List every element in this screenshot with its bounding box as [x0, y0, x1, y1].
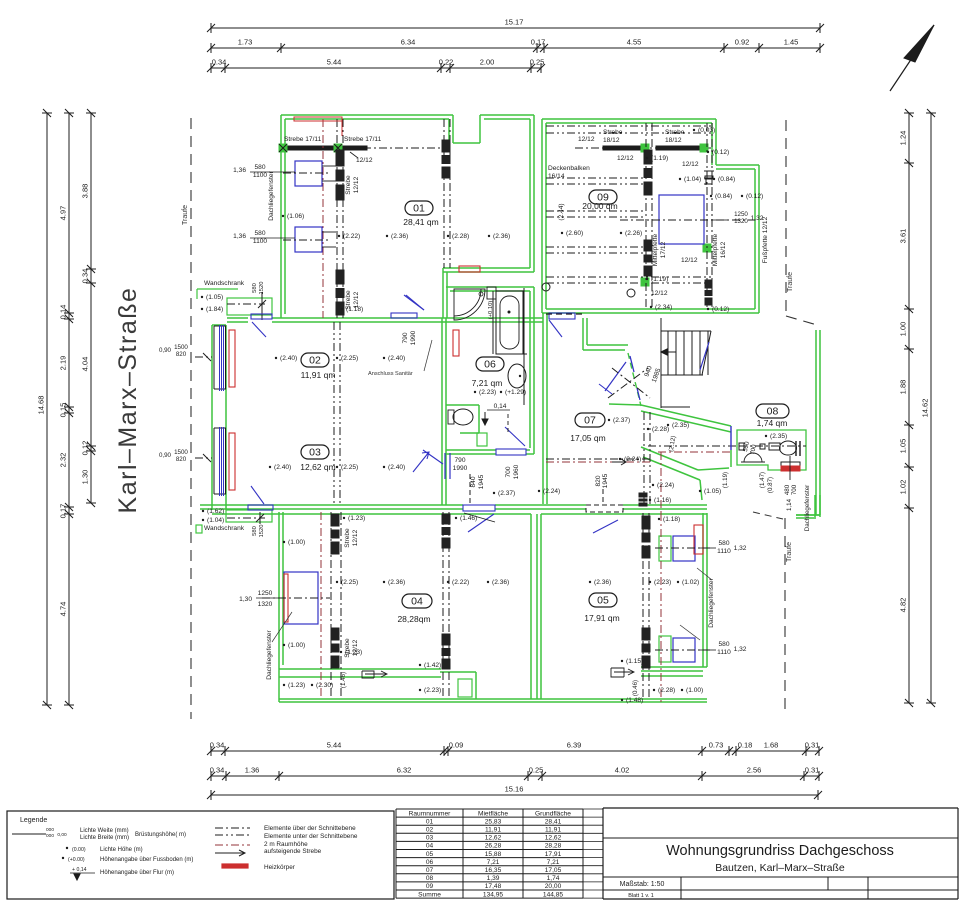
svg-text:7,21: 7,21 — [487, 859, 500, 866]
svg-text:0.14: 0.14 — [59, 305, 68, 320]
bath lower niche walls — [446, 404, 479, 406]
svg-text:Elemente unter der Schnitteben: Elemente unter der Schnittebene — [264, 833, 358, 840]
svg-text:Dachliegefenster: Dachliegefenster — [268, 170, 275, 220]
svg-text:1320: 1320 — [258, 601, 273, 608]
right outer wall below room 09 — [815, 330, 817, 515]
svg-text:2 m Raumhöhe: 2 m Raumhöhe — [264, 841, 308, 848]
dimension chain bottom row 1 — [211, 750, 819, 752]
svg-text:(1.84): (1.84) — [206, 306, 223, 313]
wc — [448, 410, 454, 424]
svg-text:(2.23): (2.23) — [479, 389, 496, 396]
svg-text:(0.03): (0.03) — [698, 127, 715, 134]
svg-text:1,36: 1,36 — [233, 233, 246, 240]
strebe green squares room 01 — [279, 144, 287, 152]
svg-text:(1.06): (1.06) — [287, 213, 304, 220]
svg-text:580: 580 — [252, 526, 258, 536]
door room 07 from top — [549, 313, 575, 319]
svg-text:134,95: 134,95 — [483, 891, 504, 898]
svg-text:05: 05 — [597, 595, 609, 607]
svg-text:16/12: 16/12 — [720, 241, 727, 258]
svg-text:12/12: 12/12 — [651, 290, 668, 297]
svg-text:1110: 1110 — [717, 649, 731, 656]
svg-text:04: 04 — [426, 843, 434, 850]
legend box — [7, 811, 394, 899]
dimension chain left inner — [90, 113, 92, 503]
svg-text:(2.23): (2.23) — [424, 687, 441, 694]
svg-text:2.19: 2.19 — [59, 356, 68, 371]
svg-text:06: 06 — [484, 359, 496, 371]
svg-text:Fußpfette 12/12: Fußpfette 12/12 — [762, 216, 769, 263]
svg-text:0,90: 0,90 — [159, 347, 172, 354]
svg-text:(2.28): (2.28) — [452, 233, 469, 240]
svg-text:17,05 qm: 17,05 qm — [570, 433, 605, 443]
corridor middle dash-dot line with strebe arrow — [546, 458, 652, 460]
svg-text:Traufe: Traufe — [787, 272, 794, 292]
room 08 label — [756, 404, 789, 418]
svg-text:1945: 1945 — [602, 473, 609, 488]
bath door leaf — [505, 427, 525, 446]
svg-text:(2.22): (2.22) — [343, 233, 360, 240]
svg-text:1520: 1520 — [259, 282, 265, 295]
title block — [602, 808, 604, 899]
svg-text:0.25: 0.25 — [529, 766, 544, 775]
svg-text:0.22: 0.22 — [439, 58, 454, 67]
svg-text:0.17: 0.17 — [59, 504, 68, 519]
svg-text:Strebe 17/11: Strebe 17/11 — [284, 136, 322, 143]
svg-text:(1.19): (1.19) — [722, 472, 729, 488]
column hatch room 01 — [336, 150, 344, 166]
svg-text:(1.19): (1.19) — [651, 155, 668, 162]
wash basin — [508, 364, 526, 388]
svg-text:5.44: 5.44 — [327, 58, 342, 67]
door swing room 07 blue — [605, 362, 626, 391]
svg-text:1,74 qm: 1,74 qm — [757, 418, 788, 428]
svg-text:144,85: 144,85 — [543, 891, 564, 898]
svg-text:(2.23): (2.23) — [654, 579, 671, 586]
svg-text:17,91 qm: 17,91 qm — [584, 613, 619, 623]
room 09 column lines — [645, 123, 647, 309]
svg-text:2.00: 2.00 — [480, 58, 495, 67]
door near wandschrank top — [251, 314, 272, 319]
svg-text:17,48: 17,48 — [485, 883, 502, 890]
svg-text:Strebe 17/11: Strebe 17/11 — [344, 136, 382, 143]
svg-text:05: 05 — [426, 851, 434, 858]
bath partition walls — [492, 291, 494, 354]
svg-text:15.16: 15.16 — [505, 785, 524, 794]
column dash-dot lines room 01 — [336, 119, 338, 318]
svg-text:820: 820 — [595, 475, 602, 486]
room 07 label — [575, 413, 605, 427]
columns room 05 right — [642, 513, 644, 699]
door top right of corridor — [391, 313, 417, 318]
svg-text:(+0.10): (+0.10) — [488, 301, 494, 320]
strebe beam line room 01 — [283, 147, 446, 149]
svg-text:(1.05): (1.05) — [206, 294, 223, 301]
svg-text:1960: 1960 — [513, 464, 520, 479]
svg-text:Lichte Weite (mm): Lichte Weite (mm) — [80, 828, 129, 834]
svg-text:Strebe: Strebe — [345, 290, 352, 310]
svg-text:(1.46): (1.46) — [340, 672, 347, 688]
door room 02 top — [252, 322, 266, 337]
svg-text:3.88: 3.88 — [81, 184, 90, 199]
svg-text:(0.12): (0.12) — [746, 193, 763, 200]
room table — [396, 808, 583, 810]
svg-text:3.61: 3.61 — [899, 229, 908, 244]
svg-text:840: 840 — [470, 476, 477, 487]
dimension chain bottom row 2 — [211, 775, 819, 777]
svg-text:(+0.00): (+0.00) — [68, 857, 85, 863]
room 07 upper-left walls — [582, 318, 584, 350]
svg-text:1100: 1100 — [253, 238, 268, 245]
room 03 label — [301, 445, 329, 459]
svg-text:0.09: 0.09 — [449, 741, 464, 750]
svg-text:0.34: 0.34 — [210, 741, 225, 750]
Traufe right upper — [785, 120, 787, 316]
svg-text:4.82: 4.82 — [899, 598, 908, 613]
svg-text:4.74: 4.74 — [59, 602, 68, 617]
svg-text:580: 580 — [718, 540, 729, 547]
shower quarter circle — [454, 289, 485, 320]
svg-text:0,14: 0,14 — [494, 403, 507, 410]
svg-text:820: 820 — [176, 351, 187, 358]
dashed roof edge bottom right — [753, 512, 783, 519]
svg-text:0,90: 0,90 — [159, 452, 172, 459]
svg-text:(1.04): (1.04) — [207, 517, 224, 524]
svg-text:Blatt 1 v. 1: Blatt 1 v. 1 — [628, 893, 654, 899]
bath room 06 left wall — [441, 318, 443, 505]
svg-text:Strebe: Strebe — [665, 129, 685, 136]
svg-text:(2.40): (2.40) — [280, 355, 297, 362]
svg-text:15,88: 15,88 — [485, 851, 502, 858]
svg-text:Strebe: Strebe — [344, 638, 351, 658]
svg-text:0.15: 0.15 — [59, 403, 68, 418]
svg-text:Höhenangabe über Flur (m): Höhenangabe über Flur (m) — [100, 870, 174, 876]
svg-text:1520: 1520 — [259, 525, 265, 538]
dark red roofline room 04 — [320, 512, 322, 699]
dachliegefenster room 01 upper — [295, 161, 322, 186]
svg-text:580: 580 — [254, 164, 265, 171]
room 08 fixtures — [739, 445, 806, 447]
svg-text:1.73: 1.73 — [238, 38, 253, 47]
svg-text:Bautzen, Karl–Marx–Straße: Bautzen, Karl–Marx–Straße — [715, 862, 845, 874]
svg-text:Strebe: Strebe — [603, 129, 623, 136]
svg-text:0.17: 0.17 — [531, 38, 546, 47]
svg-text:790: 790 — [402, 332, 409, 343]
svg-text:12/12: 12/12 — [352, 639, 359, 656]
svg-text:Karl–Marx–Straße: Karl–Marx–Straße — [114, 287, 142, 514]
wedge dash-dot lines — [643, 412, 645, 504]
svg-text:Grundfläche: Grundfläche — [535, 810, 571, 817]
room 05 right outer wall — [702, 513, 704, 667]
svg-text:(2.36): (2.36) — [391, 233, 408, 240]
svg-text:(2.36): (2.36) — [492, 579, 509, 586]
svg-text:0.34: 0.34 — [81, 269, 90, 284]
windows room 05 bay — [673, 536, 695, 561]
svg-text:(2.37): (2.37) — [498, 490, 515, 497]
stair blue rail — [700, 342, 709, 370]
svg-text:17/12: 17/12 — [660, 241, 667, 258]
svg-text:12/12: 12/12 — [617, 155, 634, 162]
window room 09 blue — [659, 195, 704, 244]
svg-text:2.32: 2.32 — [59, 453, 68, 468]
svg-text:(2.34): (2.34) — [655, 304, 672, 311]
svg-text:(1.42): (1.42) — [424, 662, 441, 669]
svg-text:1,32: 1,32 — [734, 545, 747, 552]
svg-text:700: 700 — [791, 484, 798, 495]
svg-text:(2.25): (2.25) — [341, 464, 358, 471]
svg-text:1,14: 1,14 — [786, 498, 793, 511]
staircase — [667, 331, 669, 375]
svg-text:1,39: 1,39 — [487, 875, 500, 882]
svg-text:Strebe: Strebe — [344, 528, 351, 548]
svg-text:(1.62): (1.62) — [207, 508, 224, 515]
north arrow — [890, 25, 934, 91]
corridor door to room 04 — [463, 505, 495, 511]
svg-text:20,00: 20,00 — [545, 883, 562, 890]
svg-text:12,62: 12,62 — [545, 835, 562, 842]
wandschrank top left box — [227, 298, 272, 315]
svg-text:6.39: 6.39 — [567, 741, 582, 750]
svg-text:12,62 qm: 12,62 qm — [300, 462, 335, 472]
svg-text:0.31: 0.31 — [805, 766, 820, 775]
svg-text:06: 06 — [426, 859, 434, 866]
svg-text:(2.24): (2.24) — [624, 456, 641, 463]
svg-text:1320: 1320 — [734, 218, 748, 225]
svg-text:02: 02 — [309, 355, 321, 367]
svg-text:0.92: 0.92 — [735, 38, 750, 47]
svg-text:1.36: 1.36 — [245, 766, 260, 775]
room 09 label — [589, 190, 617, 204]
svg-text:11,91: 11,91 — [545, 827, 561, 834]
svg-text:+ 0,14: + 0,14 — [72, 867, 87, 873]
strebe arrows diagonal blue marks rooms — [413, 452, 429, 472]
svg-text:1500: 1500 — [174, 449, 188, 456]
svg-text:2.56: 2.56 — [747, 766, 762, 775]
svg-text:Mittelpfette: Mittelpfette — [652, 234, 659, 267]
height arrow 0,14 — [482, 412, 488, 425]
wc column and height note — [487, 287, 496, 299]
svg-text:7,21: 7,21 — [547, 859, 560, 866]
svg-text:4.04: 4.04 — [81, 357, 90, 372]
door room 05 right lower — [611, 668, 634, 677]
svg-text:17,05: 17,05 — [545, 867, 562, 874]
svg-text:(1.46): (1.46) — [460, 515, 477, 522]
svg-text:03: 03 — [426, 835, 434, 842]
svg-text:5.44: 5.44 — [327, 741, 342, 750]
svg-text:4.02: 4.02 — [615, 766, 630, 775]
svg-text:Höhenangabe über Fussboden (m): Höhenangabe über Fussboden (m) — [100, 857, 193, 863]
svg-text:Dachliegefenster: Dachliegefenster — [708, 577, 715, 627]
svg-text:(2.24): (2.24) — [657, 482, 674, 489]
room 09 outer walls — [542, 118, 716, 120]
table spacer column — [583, 808, 603, 810]
svg-text:1945: 1945 — [478, 474, 485, 489]
dashed glass diagonal at stair — [628, 353, 641, 406]
svg-text:Brüstungshöhe( m): Brüstungshöhe( m) — [135, 832, 186, 838]
room 09 strebe bars — [603, 146, 645, 150]
Traufe right lower — [784, 518, 786, 709]
bath top walls — [446, 286, 534, 288]
svg-text:Dachliegefenster: Dachliegefenster — [804, 485, 811, 531]
blue door hall left — [444, 453, 446, 479]
svg-text:08: 08 — [767, 406, 779, 418]
svg-text:(1.19): (1.19) — [651, 276, 668, 283]
svg-text:11,91 qm: 11,91 qm — [301, 370, 336, 380]
svg-text:26,28: 26,28 — [485, 843, 502, 850]
svg-text:12/12: 12/12 — [578, 136, 595, 143]
svg-text:28,28: 28,28 — [545, 843, 562, 850]
svg-text:04: 04 — [411, 596, 423, 608]
svg-text:(2.35): (2.35) — [770, 433, 787, 440]
svg-text:820: 820 — [176, 456, 187, 463]
bottom outer wall — [279, 698, 707, 700]
svg-text:28,41: 28,41 — [545, 818, 562, 825]
svg-text:Elemente über der Schnittebene: Elemente über der Schnittebene — [264, 825, 356, 832]
svg-text:(1.18): (1.18) — [663, 516, 680, 523]
svg-text:(0.12): (0.12) — [712, 149, 729, 156]
red line top wall — [294, 117, 342, 121]
radiator room 01 — [459, 266, 480, 272]
svg-text:1990: 1990 — [453, 465, 468, 472]
bath right wall — [529, 291, 531, 448]
Traufe dashed line left — [190, 118, 192, 719]
red radiators rooms 02-03 — [229, 330, 235, 387]
svg-text:Traufe: Traufe — [182, 205, 189, 225]
svg-text:1990: 1990 — [410, 330, 417, 345]
svg-text:18/12: 18/12 — [603, 137, 620, 144]
svg-text:11,91: 11,91 — [485, 827, 501, 834]
svg-text:(1.00): (1.00) — [288, 642, 305, 649]
room 04 bottom notch — [440, 671, 476, 673]
room 01 label — [405, 201, 433, 215]
svg-text:(2.24): (2.24) — [543, 488, 560, 495]
svg-text:(0.00): (0.00) — [72, 847, 86, 853]
svg-text:07: 07 — [584, 415, 596, 427]
svg-text:(0.46): (0.46) — [632, 680, 639, 696]
svg-text:(2.60): (2.60) — [566, 230, 583, 237]
svg-text:(1.00): (1.00) — [686, 687, 703, 694]
svg-text:16,35: 16,35 — [485, 867, 502, 874]
window dim tick marks left — [203, 353, 211, 361]
svg-text:580: 580 — [718, 641, 729, 648]
svg-text:28,28qm: 28,28qm — [397, 614, 430, 624]
svg-text:4.97: 4.97 — [59, 206, 68, 221]
svg-text:(1.16): (1.16) — [654, 497, 671, 504]
svg-text:Lichte Höhe (m): Lichte Höhe (m) — [100, 847, 143, 853]
svg-text:02: 02 — [426, 827, 434, 834]
svg-text:0.34: 0.34 — [210, 766, 225, 775]
svg-text:4.55: 4.55 — [627, 38, 642, 47]
room 09 column hatches — [644, 150, 652, 164]
room 01 walls — [280, 115, 282, 318]
svg-text:580: 580 — [252, 283, 258, 293]
svg-text:1.05: 1.05 — [899, 439, 908, 454]
svg-text:0.34: 0.34 — [212, 58, 227, 67]
svg-text:(2.28): (2.28) — [652, 426, 669, 433]
beam line rooms 02-03 — [333, 322, 335, 505]
room 08 walls — [737, 430, 806, 470]
svg-text:1100: 1100 — [253, 172, 268, 179]
svg-text:1,30: 1,30 — [239, 596, 252, 603]
svg-text:(0.84): (0.84) — [715, 193, 732, 200]
svg-text:01: 01 — [413, 203, 425, 215]
svg-text:6.32: 6.32 — [397, 766, 412, 775]
dimension chain right inner — [908, 113, 910, 703]
svg-text:Lichte Breite (mm): Lichte Breite (mm) — [80, 835, 129, 841]
svg-text:0.31: 0.31 — [805, 741, 820, 750]
svg-text:Anschluss Sanitär: Anschluss Sanitär — [368, 371, 413, 377]
svg-text:14.62: 14.62 — [921, 399, 930, 418]
svg-text:08: 08 — [426, 875, 434, 882]
svg-text:14.68: 14.68 — [37, 396, 46, 415]
svg-text:700: 700 — [505, 466, 512, 477]
svg-text:12/12: 12/12 — [353, 176, 360, 193]
svg-text:15.17: 15.17 — [505, 18, 524, 27]
room 06 label — [476, 357, 504, 371]
svg-text:25,83: 25,83 — [485, 818, 502, 825]
svg-text:(1.47): (1.47) — [759, 472, 766, 488]
room 09 ceiling beams dash-dot — [546, 125, 712, 127]
svg-text:1,36: 1,36 — [233, 167, 246, 174]
svg-text:(2.28): (2.28) — [658, 687, 675, 694]
svg-text:1.02: 1.02 — [899, 480, 908, 495]
svg-text:0.12: 0.12 — [81, 441, 90, 456]
svg-text:(1.05): (1.05) — [704, 488, 721, 495]
svg-text:1.24: 1.24 — [899, 131, 908, 146]
svg-text:7,21 qm: 7,21 qm — [472, 378, 503, 388]
svg-text:(2.37): (2.37) — [613, 417, 630, 424]
columns room 04 — [330, 512, 332, 699]
room 02 label — [301, 353, 329, 367]
svg-text:07: 07 — [426, 867, 434, 874]
svg-text:(2.30): (2.30) — [316, 682, 333, 689]
svg-text:20,00 qm: 20,00 qm — [582, 201, 617, 211]
bathtub — [496, 291, 523, 354]
dimension chain bottom row 3 (15.16) — [211, 794, 818, 796]
svg-text:0,00: 0,00 — [57, 832, 67, 838]
dachliegefenster room 01 lower — [295, 227, 322, 252]
svg-text:Wandschrank: Wandschrank — [204, 280, 245, 287]
dimension chain left middle — [68, 113, 70, 705]
door to room 03 bottom left — [248, 505, 273, 510]
wedge lower walls — [641, 447, 698, 470]
dimension chain right outer (14.62) — [930, 113, 932, 703]
svg-text:Maßstab: 1:50: Maßstab: 1:50 — [620, 881, 665, 888]
svg-text:1.00: 1.00 — [899, 322, 908, 337]
svg-text:(2.25): (2.25) — [341, 355, 358, 362]
svg-text:000: 000 — [46, 833, 54, 839]
svg-text:000: 000 — [46, 827, 54, 833]
svg-text:28,41 qm: 28,41 qm — [403, 217, 438, 227]
svg-text:790: 790 — [454, 457, 465, 464]
svg-text:(+1.29): (+1.29) — [505, 389, 526, 396]
columns rooms 04-05 divider — [442, 512, 444, 699]
door symbol room 04 bottom — [362, 671, 387, 678]
dimension chain top row 3 — [211, 67, 541, 69]
svg-text:(2.26): (2.26) — [625, 230, 642, 237]
svg-text:Wohnungsgrundriss Dachgeschos: Wohnungsgrundriss Dachgeschoss — [666, 843, 894, 859]
svg-text:(1.04): (1.04) — [684, 176, 701, 183]
windows rooms 02-03 in left wall — [213, 326, 215, 389]
svg-text:12/12: 12/12 — [681, 257, 698, 264]
svg-text:(2.36): (2.36) — [493, 233, 510, 240]
svg-text:(2.40): (2.40) — [388, 464, 405, 471]
dash-dot cross near stair — [608, 368, 648, 398]
svg-text:1,32: 1,32 — [734, 646, 747, 653]
svg-text:Dachliegefenster: Dachliegefenster — [266, 629, 273, 679]
svg-text:1500: 1500 — [174, 344, 188, 351]
svg-text:(2.22): (2.22) — [452, 579, 469, 586]
